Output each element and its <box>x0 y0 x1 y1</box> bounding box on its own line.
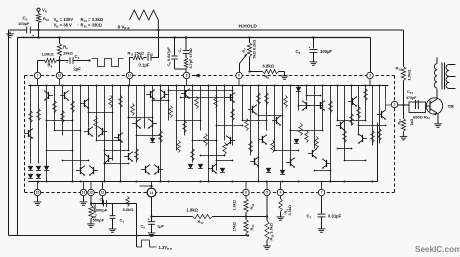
svg-text:5.6kΩ: 5.6kΩ <box>123 207 135 212</box>
svg-text:5kΩ 8.2kΩ: 5kΩ 8.2kΩ <box>253 40 257 59</box>
svg-text:1.8kΩ: 1.8kΩ <box>233 200 237 210</box>
svg-text:14: 14 <box>150 191 154 195</box>
svg-text:6: 6 <box>245 191 247 195</box>
svg-text:C11: C11 <box>148 51 154 57</box>
svg-text:10: 10 <box>128 74 132 78</box>
svg-text:7: 7 <box>321 191 323 195</box>
svg-text:11: 11 <box>101 191 105 195</box>
svg-text:9: 9 <box>238 74 240 78</box>
svg-text:100µF: 100µF <box>320 49 332 54</box>
svg-text:100µF: 100µF <box>18 21 30 26</box>
svg-text:C3: C3 <box>75 54 80 60</box>
svg-text:R17: R17 <box>198 219 204 225</box>
svg-text:2µF: 2µF <box>74 67 82 72</box>
svg-text:1µF: 1µF <box>157 224 165 229</box>
svg-text:R10: R10 <box>43 16 49 22</box>
svg-text:1: 1 <box>37 74 39 78</box>
svg-text:VB: VB <box>42 8 48 14</box>
svg-text:2: 2 <box>394 103 396 107</box>
svg-text:0.01µF: 0.01µF <box>328 214 342 219</box>
svg-text:3kΩ: 3kΩ <box>410 119 414 126</box>
svg-text:500pF: 500pF <box>93 218 105 223</box>
svg-text:R9: R9 <box>48 63 53 69</box>
svg-text:15kΩ: 15kΩ <box>233 222 237 231</box>
svg-text:680Ω R12: 680Ω R12 <box>413 114 430 120</box>
svg-text:4.7µF 470Ω: 4.7µF 470Ω <box>189 48 193 68</box>
svg-text:R1115kΩ: R1115kΩ <box>128 51 144 57</box>
svg-text:13: 13 <box>82 191 86 195</box>
svg-text:15: 15 <box>36 191 40 195</box>
svg-text:1.3VP-P: 1.3VP-P <box>159 245 173 251</box>
svg-text:C9: C9 <box>141 224 146 230</box>
svg-text:6.8kΩ: 6.8kΩ <box>263 64 275 69</box>
svg-text:4: 4 <box>280 191 282 195</box>
svg-text:1.5kΩ: 1.5kΩ <box>407 70 412 81</box>
svg-text:VB = 38 V: VB = 38 V <box>54 23 73 29</box>
svg-text:8 VP-P: 8 VP-P <box>118 25 131 31</box>
svg-text:SeekIC.com: SeekIC.com <box>415 245 460 254</box>
svg-text:18kΩ: 18kΩ <box>63 51 74 56</box>
svg-text:R13: R13 <box>396 66 402 72</box>
svg-text:0.1µF: 0.1µF <box>139 63 150 68</box>
svg-text:R8: R8 <box>265 74 270 80</box>
svg-text:R10 = 330Ω: R10 = 330Ω <box>81 23 103 29</box>
svg-text:8: 8 <box>186 74 188 78</box>
svg-text:C1: C1 <box>120 218 125 224</box>
svg-text:120kΩ: 120kΩ <box>42 52 55 57</box>
svg-text:·: · <box>78 23 79 28</box>
svg-text:+: + <box>66 61 68 65</box>
svg-text:R6: R6 <box>63 45 68 51</box>
svg-text:3: 3 <box>369 74 371 78</box>
svg-text:H.HOLD: H.HOLD <box>239 24 258 30</box>
svg-text:C10: C10 <box>407 89 413 95</box>
svg-text:1000pF: 1000pF <box>94 208 108 213</box>
svg-text:3.3kΩ: 3.3kΩ <box>288 205 292 215</box>
svg-text:C2: C2 <box>100 197 105 203</box>
svg-text:5: 5 <box>266 191 268 195</box>
svg-text:R14: R14 <box>398 119 403 125</box>
svg-text:+: + <box>309 46 311 50</box>
svg-text:C7: C7 <box>307 214 312 220</box>
svg-text:C8: C8 <box>296 49 301 55</box>
svg-text:16: 16 <box>58 74 62 78</box>
svg-text:+: + <box>148 218 150 222</box>
svg-text:1.8kΩ: 1.8kΩ <box>187 208 199 213</box>
svg-text:12: 12 <box>89 191 93 195</box>
svg-text:TR: TR <box>448 104 455 110</box>
svg-text:470pF: 470pF <box>406 96 417 100</box>
